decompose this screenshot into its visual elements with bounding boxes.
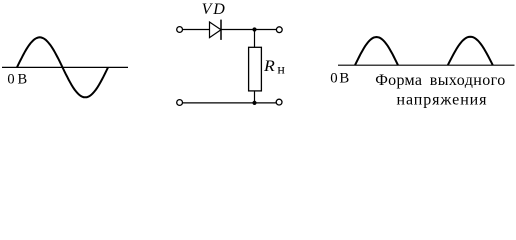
junction top (252, 27, 256, 31)
output waveform axis (338, 64, 515, 66)
terminal (output bottom) (276, 99, 282, 105)
bottom rail wire (183, 102, 276, 104)
svg-text:Форма: Форма (375, 72, 422, 89)
input waveform axis (2, 66, 128, 68)
svg-text:V: V (202, 1, 214, 18)
svg-text:0 В: 0 В (7, 71, 27, 87)
svg-text:н: н (277, 63, 285, 78)
svg-text:R: R (263, 58, 275, 75)
input sine wave (17, 37, 108, 97)
resistor Rn body (249, 47, 262, 91)
svg-text:напряжения: напряжения (397, 92, 488, 109)
svg-text:выходного: выходного (430, 72, 505, 89)
diode VD triangle (210, 22, 222, 38)
terminal (input top) (177, 27, 183, 33)
terminal (input bottom) (177, 100, 183, 106)
wire (cathode to output) (221, 29, 276, 31)
svg-text:D: D (212, 1, 225, 18)
svg-text:0 В: 0 В (330, 70, 349, 86)
output half-wave 2 (448, 37, 493, 65)
output half-wave 1 (355, 37, 398, 65)
wire (anode) (183, 29, 210, 31)
terminal (output top) (276, 27, 282, 33)
junction bottom (252, 101, 256, 105)
wire (junction to resistor) (254, 30, 256, 48)
wire (resistor to bottom rail) (254, 91, 256, 103)
diode VD cathode bar (220, 20, 222, 40)
